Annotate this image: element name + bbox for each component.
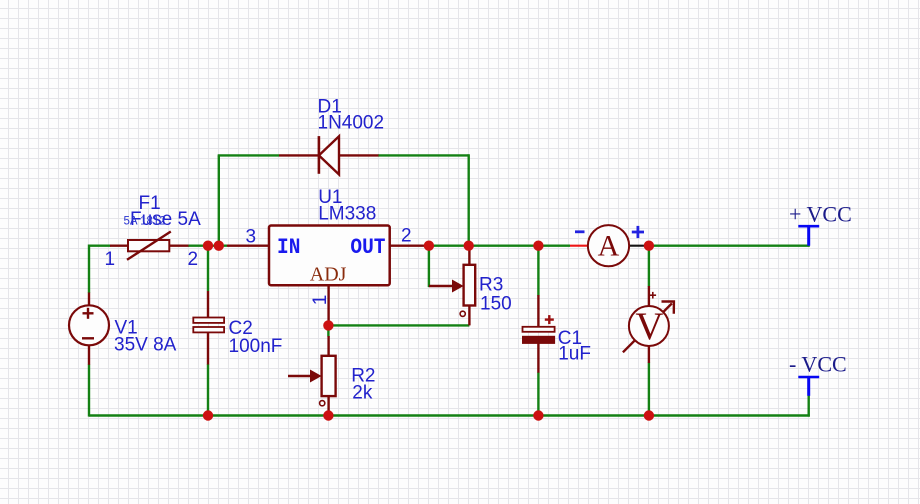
wire: diode top rail left segment (218, 154, 279, 156)
voltmeter V (623, 286, 674, 363)
wire: bottom ground rail (89, 414, 810, 416)
wire: OUT rail to +VCC (649, 244, 810, 246)
junction dot ADJ node (323, 320, 333, 330)
svg-text:1N4002: 1N4002 (318, 112, 385, 133)
svg-text:IN: IN (277, 235, 300, 261)
capacitor C2 (193, 291, 224, 365)
svg-text:LM338: LM338 (318, 204, 376, 225)
svg-text:150: 150 (480, 293, 512, 314)
wire: ammeter minus red lead (570, 245, 589, 247)
svg-text:35V 8A: 35V 8A (114, 335, 177, 356)
svg-text:2: 2 (188, 249, 199, 270)
wire: C1 branch top green (537, 246, 539, 296)
svg-text:100nF: 100nF (229, 336, 283, 357)
wire: voltmeter bottom green (648, 363, 650, 416)
junction dots on OUT rail (203, 241, 213, 251)
wire: diode top rail right segment (378, 154, 469, 156)
diode D1 (279, 136, 379, 174)
svg-text:5A 1812: 5A 1812 (124, 216, 166, 228)
potentiometer R3 (429, 246, 475, 326)
wire: ammeter plus black lead (629, 245, 649, 247)
wire: left corner horizontal to fuse (net IN) (89, 246, 111, 293)
svg-text:1uF: 1uF (558, 343, 591, 364)
svg-text:V: V (635, 305, 663, 348)
wire: V1 bottom green (88, 364, 90, 416)
wires will be inserted here (69, 96, 852, 420)
wire: wiper branch vertical (428, 246, 430, 287)
wire: -VCC green stub (808, 395, 810, 416)
netflag -VCC (789, 352, 847, 396)
wire: voltmeter top green (648, 246, 650, 287)
wire: fuse right to U1 pin3 lead (188, 244, 227, 246)
svg-text:2: 2 (401, 226, 412, 247)
svg-text:OUT: OUT (350, 235, 385, 261)
svg-text:1: 1 (105, 249, 116, 270)
svg-text:+ VCC: + VCC (789, 201, 852, 226)
svg-text:3: 3 (246, 226, 257, 247)
junction dots bottom rail (203, 410, 213, 420)
wire: C2 branch bottom green (207, 364, 209, 416)
svg-text:- VCC: - VCC (789, 352, 847, 377)
wire: ADJ link horizontal (328, 324, 469, 326)
wire: C2 branch top green (207, 246, 209, 291)
capacitor C1 polarized (523, 295, 555, 373)
fuse F1 (110, 232, 189, 260)
wire: right riser from diode rail down to OUT rail (468, 154, 470, 245)
svg-text:1: 1 (310, 295, 331, 306)
op-amp U1 regulator box LM338 (227, 226, 429, 326)
wire: OUT rail green segment (429, 244, 570, 246)
netflag +VCC (789, 201, 852, 245)
wire: vertical riser to diode rail (218, 155, 220, 245)
source V1 (69, 293, 109, 365)
svg-text:ADJ: ADJ (310, 264, 347, 286)
svg-text:A: A (598, 230, 620, 263)
potentiometer R2 (288, 336, 336, 416)
ammeter A (575, 225, 644, 266)
svg-text:2k: 2k (352, 382, 373, 403)
wire: R2 top green stub (327, 325, 329, 336)
wire: C1 branch bottom green (537, 372, 539, 415)
